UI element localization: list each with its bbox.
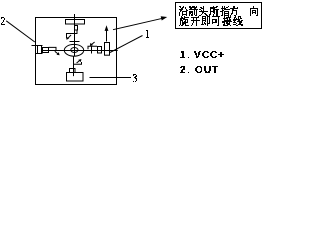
screw terminal T4 unscrew bracket: [49, 47, 57, 51]
screw terminal T1 rotation arrow: [68, 35, 71, 38]
horizontal center axis wire: [43, 50, 118, 52]
rotation direction arrow (inside, up): [106, 29, 108, 42]
screw terminal T2 (right) head plate: [105, 43, 110, 56]
screw terminal T4 head plate verticals: [37, 46, 39, 54]
screw terminal T1 clamp bar: [70, 41, 80, 43]
screw terminal T4 (left) head plate top bar: [32, 45, 43, 47]
leader line to label 1: [110, 36, 143, 53]
screw terminal T3 rotation arrow: [77, 60, 80, 63]
callout arrow shaft: [113, 18, 163, 29]
screw terminal T2 nut: [98, 47, 102, 54]
center port inner ellipse: [71, 48, 78, 53]
label 2: [1, 17, 5, 25]
label 1: [146, 30, 149, 38]
leader line to label 2: [6, 21, 35, 42]
bottom stem wire: [73, 56, 75, 76]
screw terminal T3 (bottom) head plate: [67, 73, 84, 82]
screw terminal T3 unscrew bracket: [74, 62, 82, 64]
screw terminal T1 nut: [75, 26, 78, 31]
screw terminal T4 rotation arrow: [55, 51, 58, 54]
callout arrowhead: [161, 16, 168, 20]
screw terminal T4 nut: [43, 48, 49, 53]
screw terminal T1 (top) head plate: [66, 20, 85, 25]
callout note box: [176, 3, 262, 29]
legend line 2: OUT: [180, 66, 218, 73]
callout note text line 1: rasterized CJK: [179, 6, 258, 16]
leader line to label 3: [90, 77, 132, 79]
label 3: [133, 74, 137, 82]
screw terminal T2 clamp bar: [91, 46, 93, 54]
terminal block body outline: [36, 18, 117, 85]
callout note text line 2: rasterized CJK: [179, 16, 243, 26]
screw terminal T1 unscrew bracket: [67, 31, 78, 39]
screw terminal T3 nut: [70, 69, 76, 73]
vertical center axis wire: [74, 14, 76, 56]
screw terminal T4 head plate bottom bar: [36, 53, 43, 55]
legend line 1: VCC+: [180, 51, 224, 58]
center port outer ellipse: [64, 44, 83, 56]
screw terminal T2 rotation arrow: [91, 42, 94, 45]
screw terminal T2 unscrew bracket: [88, 46, 97, 49]
